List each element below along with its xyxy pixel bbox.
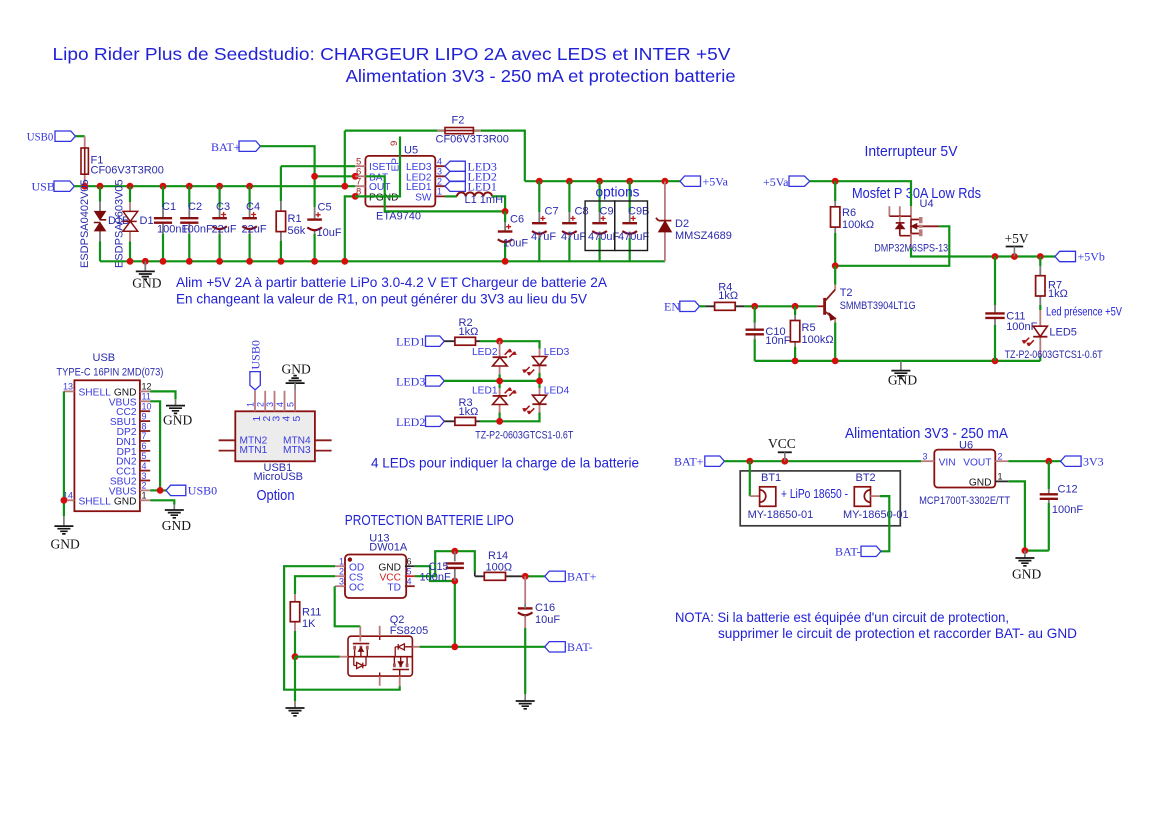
battery holder box: [740, 471, 900, 526]
pin 2 CS: [335, 575, 345, 577]
svg-text:Mosfet P 30A Low Rds: Mosfet P 30A Low Rds: [852, 186, 981, 202]
svg-text:3: 3: [339, 576, 344, 586]
pin 1 GND: [995, 480, 1008, 482]
svg-text:100nF: 100nF: [1052, 504, 1083, 516]
svg-text:47uF: 47uF: [531, 231, 556, 243]
pin 6 GND: [405, 565, 415, 567]
junction U6-GND/C12: [1022, 547, 1029, 554]
svg-text:TD: TD: [387, 582, 401, 593]
resistor R5 100k: [790, 306, 833, 361]
LED LED5: [1022, 310, 1077, 361]
svg-text:GND: GND: [282, 362, 311, 377]
junction R11/CS/Q2: [292, 653, 299, 660]
svg-text:NOTA: Si la batterie est équip: NOTA: Si la batterie est équipée d'un ci…: [675, 609, 1009, 625]
pin 11 VBUS: [140, 400, 150, 402]
svg-text:Led présence +5V: Led présence +5V: [1046, 307, 1122, 319]
svg-text:Lipo Rider Plus de Seedstudio:: Lipo Rider Plus de Seedstudio: CHARGEUR …: [53, 44, 731, 64]
ground symbol pin1: [165, 510, 184, 518]
svg-text:USB0: USB0: [188, 484, 217, 498]
diode D2 zener MMSZ4689: [656, 181, 732, 261]
wire pin1 to ground: [150, 500, 174, 504]
node BAT- label (protection): [545, 642, 566, 652]
svg-text:VCC: VCC: [768, 436, 796, 451]
svg-text:100nF: 100nF: [420, 572, 451, 584]
capacitor C8 47uF polarized: [561, 181, 589, 261]
svg-text:10uF: 10uF: [503, 238, 528, 250]
svg-text:GND: GND: [114, 496, 137, 507]
wire U6 GND to ground: [1008, 481, 1049, 550]
junction D1/VBUS: [127, 183, 134, 190]
svg-text:1: 1: [998, 472, 1003, 482]
capacitor C7 47uF polarized: [531, 181, 559, 261]
svg-text:1K: 1K: [302, 618, 316, 630]
svg-text:BT2: BT2: [856, 472, 876, 484]
svg-text:+5Va: +5Va: [703, 174, 729, 188]
svg-text:2: 2: [142, 481, 147, 491]
svg-text:Interrupteur 5V: Interrupteur 5V: [865, 144, 958, 160]
wire LED middle row: [444, 380, 539, 382]
svg-text:100kΩ: 100kΩ: [842, 219, 874, 231]
svg-text:USB: USB: [93, 352, 116, 364]
junction D2/+5Va: [662, 178, 669, 185]
capacitor C6 10uF polarized: [498, 211, 529, 261]
junction C12/3V3: [1045, 458, 1052, 465]
pin MTN2: [219, 439, 236, 441]
node LED1 output label: [445, 181, 465, 191]
wire pin11 to USB0: [150, 401, 160, 490]
pin 3 VIN: [921, 460, 934, 462]
wire R4 to T2 base: [745, 305, 817, 307]
junction R14/C16/BAT+: [522, 573, 529, 580]
ground symbol protection left: [286, 708, 305, 716]
svg-text:USB0: USB0: [248, 340, 262, 369]
svg-text:LED5: LED5: [1049, 327, 1077, 339]
junction LED1 mid left: [496, 378, 503, 385]
svg-text:MTN3: MTN3: [283, 445, 311, 456]
LED LED4: [522, 386, 569, 415]
junction GND-symbol: [142, 258, 149, 265]
wire R2 to LED top row: [480, 341, 540, 348]
svg-text:5: 5: [286, 402, 296, 407]
svg-text:MY-18650-01: MY-18650-01: [748, 509, 814, 521]
svg-text:LED3: LED3: [396, 374, 425, 388]
wire LED bottom row: [480, 413, 540, 422]
svg-text:22uF: 22uF: [242, 223, 267, 235]
svg-text:GND: GND: [162, 518, 191, 533]
capacitor C2 100nF: [180, 186, 213, 261]
node LED3 output label: [445, 161, 465, 171]
svg-text:7: 7: [142, 431, 147, 441]
ground symbol protection right: [516, 701, 535, 709]
junction PGND/GND rail: [341, 258, 348, 265]
svg-text:C3: C3: [216, 201, 230, 213]
svg-text:C8: C8: [575, 206, 589, 218]
transistor T2 SMMBT3904LT1G: [817, 266, 916, 361]
wire CS to R11: [295, 576, 335, 594]
pin 9 SBU1: [140, 420, 150, 422]
pin MTN1: [219, 450, 236, 452]
pin 3 SBU2: [140, 480, 150, 482]
junction L1/C6/BAT: [502, 208, 509, 215]
svg-text:3: 3: [265, 402, 275, 407]
svg-text:5: 5: [407, 567, 412, 577]
svg-text:CF06V3T3R00: CF06V3T3R00: [436, 134, 509, 146]
svg-text:C1: C1: [162, 201, 176, 213]
junction T2/gnd: [832, 358, 839, 365]
svg-text:11: 11: [142, 392, 151, 402]
svg-text:BAT+: BAT+: [211, 140, 241, 154]
options box: [585, 201, 615, 251]
wire +5V drain rail: [911, 248, 1055, 257]
svg-text:L1 1mH: L1 1mH: [465, 194, 504, 206]
capacitor C11 100nF: [985, 257, 1037, 361]
pin 13 SHELL: [64, 390, 75, 392]
svg-text:R5: R5: [802, 322, 816, 334]
svg-text:13: 13: [63, 382, 73, 392]
svg-text:R1: R1: [288, 213, 302, 225]
junction C4/GND: [246, 258, 253, 265]
inductor L1 1mH: [445, 192, 505, 211]
svg-text:1: 1: [437, 187, 442, 197]
svg-text:Q2: Q2: [390, 614, 405, 626]
junction R6/gate/T2: [832, 262, 839, 269]
svg-text:U5: U5: [404, 145, 418, 157]
svg-text:6: 6: [142, 441, 147, 451]
IC U6 MCP1700T regulator: [919, 439, 1010, 507]
wire VOUT to 3V3: [1008, 460, 1060, 462]
svg-text:F2: F2: [452, 115, 465, 127]
junction LED2 top: [496, 338, 503, 345]
wire OUT to F2 top: [345, 131, 525, 182]
svg-text:100nF: 100nF: [182, 223, 213, 235]
resistor R7 1k: [1036, 257, 1068, 311]
junction C15 top: [451, 548, 458, 555]
junction BAT+/C5: [311, 173, 318, 180]
wire +5Va to U4 source: [810, 181, 911, 206]
svg-text:LED1: LED1: [472, 386, 498, 397]
svg-text:9: 9: [142, 411, 147, 421]
svg-text:56k: 56k: [288, 225, 306, 237]
pin 1: [254, 391, 256, 412]
junction C11/gnd: [992, 358, 999, 365]
pin 1 OD: [335, 565, 345, 567]
svg-text:4: 4: [407, 577, 412, 587]
svg-text:En changeant la valeur de R1,: En changeant la valeur de R1, on peut gé…: [176, 291, 588, 307]
junction C7/+5Va: [536, 178, 543, 185]
junction C11/+5V: [992, 253, 999, 260]
resistor R4 1k: [705, 282, 745, 311]
svg-text:PROTECTION BATTERIE LIPO: PROTECTION BATTERIE LIPO: [345, 513, 514, 529]
capacitor C16 10uF polarized: [518, 576, 560, 701]
svg-text:10uF: 10uF: [317, 227, 342, 239]
svg-text:SHELL: SHELL: [79, 387, 112, 398]
junction VBUS/USB0: [157, 487, 164, 494]
svg-text:LED1: LED1: [468, 179, 497, 193]
svg-text:C16: C16: [535, 602, 555, 614]
wire +5Va rail: [525, 180, 680, 182]
junction C8/+5Va: [566, 178, 573, 185]
pin 3 OC: [335, 585, 345, 587]
pin 4 CC1: [140, 470, 150, 472]
node USB0 label (connector): [166, 485, 186, 495]
capacitor C15 100nF: [420, 551, 464, 583]
pin 2: [264, 391, 266, 412]
junction C10/base: [751, 303, 758, 310]
pin 12 GND: [140, 390, 150, 392]
svg-text:2: 2: [437, 177, 442, 187]
diode D1 ESD protection: [114, 179, 154, 268]
svg-text:Alim +5V 2A à partir batterie: Alim +5V 2A à partir batterie LiPo 3.0-4…: [176, 274, 608, 290]
junction C6/GND rail: [502, 258, 509, 265]
resistor R11 1K: [290, 594, 321, 657]
wire EP to PGND: [355, 137, 400, 197]
svg-text:C2: C2: [188, 201, 202, 213]
wire BAT internal to L1: [365, 176, 505, 211]
svg-text:supprimer le circuit de protec: supprimer le circuit de protection et ra…: [718, 625, 1077, 641]
svg-text:SW: SW: [415, 192, 432, 203]
svg-text:MMSZ4689: MMSZ4689: [675, 230, 732, 242]
wire U4 gate loop to T2 collector: [835, 226, 949, 265]
svg-text:10nF: 10nF: [765, 335, 790, 347]
svg-text:10uF: 10uF: [535, 614, 560, 626]
svg-text:47uF: 47uF: [561, 231, 586, 243]
node 3V3 output label: [1061, 456, 1082, 466]
capacitor C9 470uF polarized (option): [588, 181, 619, 261]
svg-text:ESDPSA0402V05: ESDPSA0402V05: [79, 179, 91, 268]
junction R1/GND: [278, 258, 285, 265]
svg-text:ESDPSA0603V05: ESDPSA0603V05: [114, 179, 126, 268]
pin 14 SHELL: [64, 499, 75, 501]
wire SHELL to ground: [63, 391, 65, 516]
fuse F1: [84, 136, 86, 186]
svg-text:MCP1700T-3302E/TT: MCP1700T-3302E/TT: [919, 495, 1010, 507]
pin 6 DP1: [140, 450, 150, 452]
junction R6/+5Va: [832, 178, 839, 185]
junction C3/VBUS: [216, 183, 223, 190]
junction +5V-symbol: [1011, 253, 1018, 260]
resistor R14 100 ohm: [475, 550, 525, 580]
wire GND bottom rail: [100, 260, 665, 262]
svg-text:9: 9: [389, 141, 400, 146]
resistor R1 56k: [276, 166, 306, 261]
op-amp U5 ETA9740 charger IC: [355, 137, 445, 223]
svg-text:C12: C12: [1058, 484, 1078, 496]
wire CS node to Q2 source: [295, 656, 340, 658]
wire CS node to ground: [294, 657, 296, 701]
wire GND pin to BAT-: [415, 566, 455, 647]
junction BT1/BAT+: [746, 458, 753, 465]
pin 8 DP2: [140, 430, 150, 432]
wire BAT+ to BAT pin: [260, 146, 355, 176]
svg-text:4: 4: [281, 416, 292, 422]
junction C4/VBUS: [246, 183, 253, 190]
svg-text:EN: EN: [664, 299, 680, 313]
capacitor C1 100nF: [154, 186, 189, 261]
node LED2 output label: [445, 171, 465, 181]
transistor Q2 FS8205 dual MOSFET: [340, 614, 428, 686]
svg-text:TZ-P2-0603GTCS1-0.6T: TZ-P2-0603GTCS1-0.6T: [475, 430, 573, 442]
junction C3/GND: [216, 258, 223, 265]
pin 4 TD: [405, 585, 415, 587]
wire R14 to BAT+: [525, 575, 545, 577]
svg-text:C9: C9: [600, 206, 614, 218]
svg-text:T2: T2: [840, 287, 853, 299]
svg-text:1kΩ: 1kΩ: [1048, 288, 1068, 300]
svg-text:3: 3: [142, 471, 147, 481]
svg-text:3: 3: [437, 167, 442, 177]
svg-text:1: 1: [142, 491, 147, 501]
svg-text:DW01A: DW01A: [369, 542, 408, 554]
svg-text:1: 1: [246, 402, 256, 407]
svg-text:5: 5: [292, 416, 303, 422]
svg-text:D1: D1: [140, 215, 154, 227]
pin MTN4: [315, 439, 332, 441]
svg-text:4: 4: [275, 402, 285, 407]
svg-text:Alimentation 3V3 - 250 mA et p: Alimentation 3V3 - 250 mA et protection …: [346, 66, 736, 86]
wire ISET to R1: [281, 165, 355, 167]
svg-text:4: 4: [142, 461, 147, 471]
junction R7/+5V: [1037, 253, 1044, 260]
capacitor C12 100nF: [1040, 461, 1084, 550]
svg-text:LED2: LED2: [472, 347, 498, 358]
svg-text:MTN1: MTN1: [240, 445, 268, 456]
svg-text:22uF: 22uF: [212, 223, 237, 235]
pin 1 GND: [140, 499, 150, 501]
ground symbol main: [136, 261, 155, 279]
svg-text:BAT-: BAT-: [567, 640, 593, 654]
junction OUT/F2: [341, 183, 348, 190]
svg-text:3V3: 3V3: [1083, 454, 1104, 468]
junction R5/base: [792, 303, 799, 310]
svg-text:OC: OC: [349, 582, 364, 593]
svg-text:MY-18650-01: MY-18650-01: [843, 509, 909, 521]
pin 7 DN1: [140, 440, 150, 442]
junction R5/gnd: [792, 358, 799, 365]
capacitor C10 10nF: [746, 306, 791, 361]
ground symbol shell: [54, 516, 73, 534]
svg-text:+5Va: +5Va: [763, 175, 789, 189]
pin 3: [274, 391, 276, 412]
svg-text:2: 2: [339, 566, 344, 576]
pin 10 CC2: [140, 410, 150, 412]
svg-text:options: options: [596, 185, 640, 200]
svg-text:C6: C6: [510, 214, 524, 226]
junction C2/GND: [186, 258, 193, 265]
LED LED3: [522, 347, 569, 376]
svg-text:1kΩ: 1kΩ: [459, 326, 479, 338]
LED LED1: [472, 386, 517, 413]
svg-text:+5Vb: +5Vb: [1078, 250, 1105, 264]
svg-text:GND: GND: [969, 477, 992, 488]
capacitor C4 22uF polarized: [242, 186, 267, 261]
svg-text:10: 10: [142, 402, 152, 412]
svg-text:TYPE-C 16PIN 2MD(073): TYPE-C 16PIN 2MD(073): [56, 367, 163, 379]
svg-text:Option: Option: [257, 488, 295, 504]
junction D1B/VBUS: [97, 183, 104, 190]
wire pin12 to ground: [150, 391, 175, 399]
svg-text:C7: C7: [545, 206, 559, 218]
wire PGND to ground rail: [345, 196, 355, 261]
junction C15 bottom: [451, 578, 458, 585]
svg-text:VOUT: VOUT: [963, 457, 991, 468]
svg-text:C9B: C9B: [628, 206, 649, 218]
pin 5 VCC: [405, 575, 415, 577]
svg-text:LED3: LED3: [544, 347, 570, 358]
connector USB1 MicroUSB: [219, 391, 332, 483]
svg-text:R11: R11: [302, 607, 321, 619]
svg-text:+5V: +5V: [1005, 231, 1029, 246]
diode D1B ESD protection: [79, 179, 129, 268]
fuse F2: [436, 115, 509, 146]
svg-text:2: 2: [998, 451, 1003, 461]
junction GND/BAT-: [451, 643, 458, 650]
svg-text:R14: R14: [488, 550, 508, 562]
svg-text:C4: C4: [246, 201, 260, 213]
node BAT+ label (protection): [545, 571, 566, 581]
svg-text:CF06V3T3R00: CF06V3T3R00: [91, 165, 164, 177]
wire Q2 to BAT-: [420, 646, 545, 648]
junction C9/+5Va: [596, 178, 603, 185]
junction D1/GND: [127, 258, 134, 265]
svg-text:C5: C5: [318, 202, 332, 214]
junction LED1 bottom: [496, 418, 503, 425]
svg-text:BAT-: BAT-: [835, 545, 861, 559]
junction BAT pin: [352, 173, 359, 180]
pin 4: [284, 391, 286, 412]
junction C9B/+5Va: [626, 178, 633, 185]
ground symbol 3V3: [1015, 551, 1034, 566]
svg-text:VIN: VIN: [939, 457, 956, 468]
svg-text:GND: GND: [163, 413, 192, 428]
wire interrupteur ground rail: [755, 360, 1041, 362]
junction C1/VBUS: [160, 183, 167, 190]
transistor U4 DMP32M6SPS-13 P-MOSFET: [874, 198, 948, 255]
battery BT1 MY-18650-01: [748, 461, 814, 521]
svg-text:USB: USB: [32, 180, 55, 194]
svg-text:LED1: LED1: [396, 335, 425, 349]
svg-text:GND: GND: [888, 373, 917, 388]
svg-text:3: 3: [923, 451, 928, 461]
svg-text:8: 8: [142, 421, 147, 431]
ground symbol pin12: [166, 406, 185, 414]
svg-text:12: 12: [142, 382, 152, 392]
wire BAT+ to VIN: [724, 460, 921, 462]
capacitor C9B 470uF polarized (option): [618, 181, 649, 261]
pin 2 VOUT: [995, 460, 1008, 462]
junction C5/GND: [311, 258, 318, 265]
pin 2 VBUS: [140, 489, 150, 491]
svg-text:Alimentation 3V3 - 250 mA: Alimentation 3V3 - 250 mA: [845, 426, 1008, 442]
junction F1/VBUS: [81, 183, 88, 190]
resistor R3 1k: [444, 397, 480, 425]
power VCC symbol: [768, 436, 796, 461]
svg-text:MicroUSB: MicroUSB: [254, 471, 304, 483]
svg-text:USB0: USB0: [27, 129, 54, 143]
svg-text:TZ-P2-0603GTCS1-0.6T: TZ-P2-0603GTCS1-0.6T: [1005, 349, 1103, 361]
wire BT2 to BAT-: [880, 496, 889, 551]
svg-text:BAT+: BAT+: [567, 570, 597, 584]
node +5Va output label: [680, 176, 701, 186]
svg-text:LED4: LED4: [544, 386, 570, 397]
wire USB0 to F1: [75, 135, 84, 137]
svg-text:4 LEDs pour indiquer la charge: 4 LEDs pour indiquer la charge de la bat…: [371, 455, 639, 471]
svg-text:6: 6: [407, 557, 412, 567]
junction SHELL14: [61, 497, 68, 504]
svg-text:GND: GND: [51, 537, 80, 552]
svg-text:1kΩ: 1kΩ: [718, 290, 738, 302]
svg-text:R6: R6: [842, 207, 856, 219]
svg-text:470uF: 470uF: [618, 231, 649, 243]
